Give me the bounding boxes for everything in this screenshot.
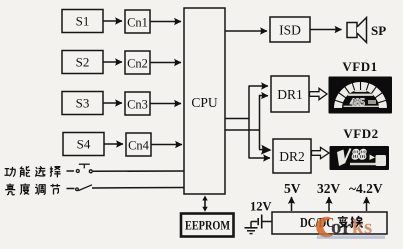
block EEPROM: [181, 214, 234, 237]
svg-text:~4.2V: ~4.2V: [349, 181, 383, 196]
wire S4 to Cn4: [104, 143, 123, 145]
block Cn2: [125, 51, 150, 74]
svg-text:Cn1: Cn1: [127, 16, 148, 30]
block DR2: [273, 139, 311, 173]
度: [20, 184, 30, 195]
wire rail B to DR1: [259, 95, 268, 97]
wire rail B: [259, 95, 261, 150]
block S4: [63, 133, 104, 156]
svg-text:32V: 32V: [317, 181, 341, 196]
label 功能选择 (hand-drawn glyphs): [5, 166, 61, 177]
battery B1: [251, 215, 272, 229]
svg-text:Cn4: Cn4: [128, 139, 150, 153]
svg-text:S2: S2: [76, 55, 90, 70]
svg-text:5V: 5V: [284, 181, 301, 196]
wire Cn4 to CPU: [151, 144, 182, 146]
wire dash before brightness switch: [67, 188, 75, 190]
wire CPU to ISD: [225, 30, 267, 32]
bidirectional wire CPU to EEPROM: [202, 196, 207, 212]
svg-text:88: 88: [351, 147, 367, 163]
block S2: [62, 51, 103, 74]
wire dash before function switch: [67, 170, 75, 172]
wire rail B to DR2: [259, 149, 270, 152]
block Cn4: [126, 133, 151, 156]
svg-text:DR1: DR1: [277, 87, 303, 102]
选: [35, 166, 45, 176]
功: [5, 167, 16, 177]
block S3: [62, 92, 103, 115]
换: [351, 216, 363, 227]
switch K2 toggle: [76, 185, 92, 191]
wire function switch to CPU: [93, 170, 184, 172]
wire rail A to DR1: [249, 85, 269, 87]
wire S1 to Cn1: [103, 20, 122, 22]
变: [338, 216, 348, 227]
svg-text:VFD1: VFD1: [342, 59, 377, 74]
display VFD2: [330, 146, 390, 170]
switch K1 pushbutton: [76, 164, 92, 173]
bus arrow DR2 to VFD2: [312, 147, 330, 158]
wire brightness switch to CPU: [92, 187, 184, 190]
svg-text:CPU: CPU: [191, 95, 218, 110]
wire Cn3 to CPU: [150, 103, 181, 105]
svg-text:orks: orks: [331, 215, 373, 239]
svg-text:12V: 12V: [250, 200, 272, 214]
block CPU U1: [184, 8, 225, 194]
wire rail A: [248, 86, 250, 158]
block DC/DC converter: [272, 212, 387, 234]
label 亮度调节 (hand-drawn glyphs): [6, 184, 60, 195]
svg-text:S4: S4: [77, 137, 91, 152]
block Cn3: [125, 92, 150, 115]
svg-text:Cn2: Cn2: [127, 57, 148, 71]
wire 5V output: [291, 197, 293, 211]
block S1: [62, 10, 103, 33]
wire rail A to DR2: [249, 157, 271, 159]
能: [20, 166, 30, 177]
wire Cn1 to CPU: [150, 21, 181, 23]
wire ISD to speaker: [310, 29, 342, 31]
speaker SP: [347, 18, 367, 43]
svg-text:Cn3: Cn3: [127, 98, 148, 112]
wire CPU stub 2: [225, 129, 260, 131]
wire 32V output: [328, 197, 330, 211]
节: [50, 184, 60, 195]
svg-text:EEPROM: EEPROM: [185, 218, 230, 233]
wire -4.2V output: [366, 197, 368, 211]
调: [35, 184, 45, 194]
wire S3 to Cn3: [103, 102, 122, 104]
svg-text:VFD2: VFD2: [343, 126, 378, 141]
block Cn1: [125, 10, 150, 33]
display VFD1: [329, 77, 393, 114]
ground: [245, 222, 258, 234]
block ISD: [270, 17, 310, 42]
亮: [6, 184, 15, 195]
svg-text:S3: S3: [76, 96, 90, 111]
block DR1: [271, 76, 309, 112]
bus arrow DR1 to VFD1: [310, 88, 328, 99]
svg-text:SP: SP: [371, 23, 386, 38]
watermark e-works: [316, 215, 385, 239]
wire Cn2 to CPU: [150, 62, 181, 64]
svg-text:S1: S1: [76, 14, 90, 29]
wire CPU stub 1: [225, 118, 249, 120]
择: [50, 166, 61, 177]
svg-text:DR2: DR2: [279, 149, 305, 164]
svg-text:ISD: ISD: [279, 23, 301, 38]
wire S2 to Cn2: [103, 61, 122, 63]
label 变换 (hand-drawn glyphs): [338, 216, 363, 228]
